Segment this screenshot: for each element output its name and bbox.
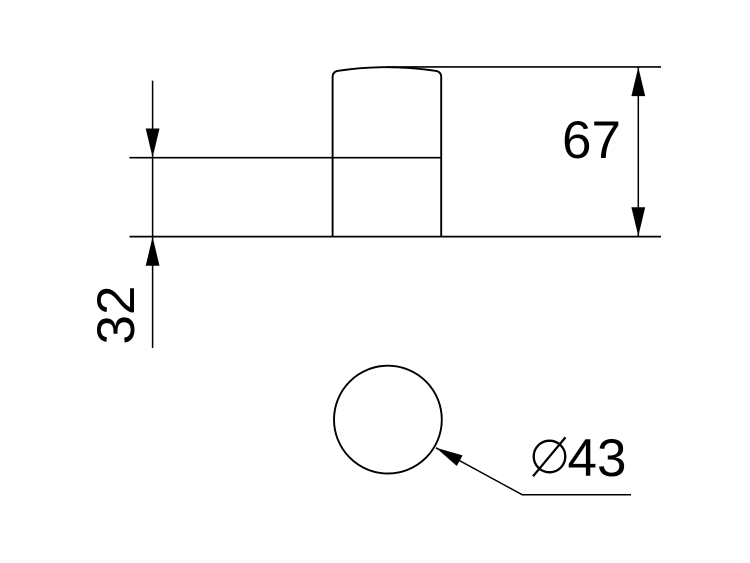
svg-text:43: 43 — [568, 429, 627, 488]
circle (bottom view of hook, d43) — [334, 366, 442, 474]
wire: middle horizontal edge / extension line (y=157.7) — [130, 157, 442, 159]
diameter symbol slash — [533, 437, 566, 476]
part outline (side view of hook post with crowned top) — [333, 67, 442, 236]
arrowhead of dim 32 pointing up at y=236.6 — [146, 237, 160, 266]
wire: bottom horizontal edge / extension line (y=236.6) — [130, 236, 662, 238]
dimension line 32 (vertical, left) — [152, 81, 154, 348]
arrowhead of dim 67 pointing down at y=236.5 — [631, 207, 645, 236]
leader line for d43 — [436, 448, 631, 495]
arrowhead of dim 32 pointing down at y=157.7 — [146, 129, 160, 158]
diameter symbol circle — [534, 441, 566, 473]
arrowhead of dim 67 pointing up at y=66.9 — [631, 67, 645, 96]
dimension line 67 (vertical, right) — [637, 67, 639, 237]
leader arrowhead at circle — [436, 448, 463, 466]
svg-text:67: 67 — [562, 111, 621, 170]
wire: top extension line (y=66.9) — [387, 66, 662, 68]
svg-text:32: 32 — [87, 286, 146, 345]
